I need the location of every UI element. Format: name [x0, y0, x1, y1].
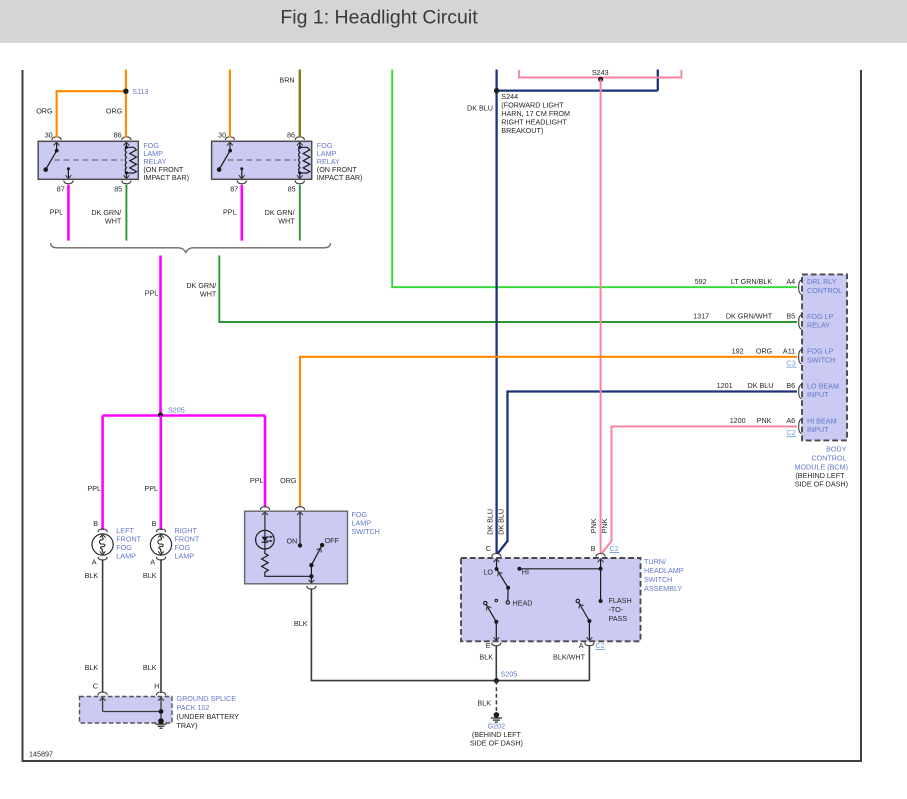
wire PPL to fog lamp switch [264, 416, 267, 508]
svg-text:PPL: PPL [87, 484, 101, 493]
wire BLK from pin E [495, 646, 497, 681]
svg-text:PPL: PPL [50, 208, 64, 217]
ground splice pack 102 box [80, 697, 173, 724]
svg-text:ORG: ORG [106, 106, 123, 115]
dimmer lever [497, 569, 509, 588]
svg-text:C3: C3 [787, 359, 796, 368]
fog lamp switch ORG connector [295, 507, 304, 510]
svg-text:A: A [579, 641, 584, 650]
svg-text:PACK 102: PACK 102 [177, 703, 210, 712]
svg-text:SWITCH: SWITCH [352, 527, 380, 536]
switch pin C connector [492, 554, 501, 557]
svg-text:A11: A11 [783, 346, 795, 355]
LO contact dot [495, 567, 499, 571]
wire ORG drop to relay K1 pin 30 [56, 90, 58, 137]
svg-text:BLK: BLK [85, 571, 99, 580]
svg-text:C2: C2 [596, 641, 605, 650]
relay K1 pin 85 connector [122, 181, 131, 184]
fog lamp switch PPL connector [260, 507, 269, 510]
switch pin E connector [492, 643, 501, 646]
svg-text:SIDE OF DASH): SIDE OF DASH) [470, 739, 523, 748]
relay K2 pin 87 connector [237, 181, 246, 184]
splice pack junction [159, 709, 164, 714]
svg-text:PPL: PPL [145, 289, 159, 298]
BCM pin B6 connector [799, 384, 802, 399]
svg-text:1317: 1317 [693, 312, 709, 321]
wire BLK/WHT from pin A [588, 646, 590, 681]
svg-text:S243: S243 [592, 68, 609, 77]
svg-text:S113: S113 [132, 87, 148, 96]
wire ORG feed to relay K2 pin 30 [229, 70, 231, 138]
wire PPL S205 horizontal [103, 414, 265, 417]
svg-text:DK GRN/WHT: DK GRN/WHT [726, 312, 773, 321]
BCM pin A4 connector [799, 280, 802, 295]
svg-text:BRN: BRN [279, 76, 294, 85]
svg-text:PNK: PNK [589, 518, 598, 533]
relay K1 pin 30 connector [52, 137, 61, 140]
svg-text:A6: A6 [786, 416, 795, 425]
wire ORG branch S113 to relay K1 pin 30 [57, 90, 126, 92]
wire PNK from BCM HI beam input [601, 426, 797, 554]
dimmer switch common from pin C [495, 559, 497, 569]
svg-text:WHT: WHT [278, 217, 295, 226]
svg-text:INPUT: INPUT [807, 390, 829, 399]
svg-text:DK BLU: DK BLU [467, 103, 493, 112]
flash-to-pass contact [576, 599, 579, 602]
HI contact bus [519, 568, 600, 570]
svg-text:B6: B6 [786, 381, 795, 390]
svg-text:BLK: BLK [85, 663, 99, 672]
svg-text:86: 86 [114, 130, 122, 139]
svg-text:C: C [93, 682, 98, 691]
svg-text:BODY: BODY [826, 445, 847, 454]
svg-text:GROUND SPLICE: GROUND SPLICE [177, 694, 237, 703]
fog lamp switch OFF contact [320, 543, 324, 547]
svg-text:OFF: OFF [325, 536, 340, 545]
wire PPL from relay K2 pin 87 [241, 185, 244, 241]
svg-text:PPL: PPL [144, 484, 158, 493]
svg-text:(UNDER BATTERY: (UNDER BATTERY [177, 712, 240, 721]
wire DK GRN/WHT bundle to BCM [219, 256, 797, 323]
svg-text:PNK: PNK [600, 518, 609, 533]
svg-text:CONTROL: CONTROL [807, 286, 842, 295]
svg-text:DK BLU: DK BLU [748, 381, 774, 390]
svg-text:WHT: WHT [200, 290, 217, 299]
relay K1 pin 87 output arrow [67, 167, 70, 170]
svg-text:ON: ON [287, 537, 298, 546]
svg-text:PPL: PPL [223, 208, 237, 217]
svg-text:BLK: BLK [294, 619, 308, 628]
svg-text:SWITCH: SWITCH [644, 575, 672, 584]
svg-text:S205: S205 [501, 670, 518, 679]
turn/headlamp switch assembly box [461, 558, 641, 641]
ground symbol splice pack [155, 718, 166, 728]
svg-text:30: 30 [218, 130, 226, 139]
diagram frame border [23, 70, 862, 761]
BCM pin A6 connector [799, 419, 802, 434]
wire PPL bundle to S205 [159, 256, 162, 416]
left front fog lamp pin A connector [98, 557, 107, 560]
switch pin B connector [596, 554, 605, 557]
right front fog lamp pin A connector [156, 557, 165, 560]
svg-text:C2: C2 [787, 428, 796, 437]
svg-text:TRAY): TRAY) [177, 721, 198, 730]
svg-text:LO: LO [483, 568, 493, 577]
svg-text:DK BLU: DK BLU [485, 509, 494, 535]
wire BLK right fog lamp ground [160, 559, 162, 693]
relay K2 coil [299, 142, 310, 178]
svg-text:86: 86 [287, 130, 295, 139]
svg-text:85: 85 [114, 184, 122, 193]
relay K2 pin 30 arrow [227, 142, 233, 145]
harness bundle brace [51, 243, 331, 252]
svg-text:592: 592 [695, 277, 707, 286]
svg-text:INPUT: INPUT [807, 425, 829, 434]
wire BLK left fog lamp ground [102, 559, 104, 693]
svg-text:BLK: BLK [143, 663, 157, 672]
fog lamp switch PPL arrow [262, 512, 268, 515]
pin B riser [600, 559, 602, 601]
relay K1 pin 86 connector [122, 137, 131, 140]
svg-text:85: 85 [288, 184, 296, 193]
wire BLK fog lamp switch ground [311, 588, 589, 680]
fog lamp relay K1 box [38, 141, 138, 179]
svg-text:BLK: BLK [477, 699, 491, 708]
splice pack internal bus [103, 698, 161, 720]
flash-to-pass output to pin A [588, 621, 590, 640]
fog lamp switch lever [311, 545, 322, 565]
svg-text:HI BEAM: HI BEAM [807, 416, 837, 425]
relay K2 pin 85 connector [295, 181, 304, 184]
svg-text:ORG: ORG [36, 106, 53, 115]
right front fog lamp right front fog lamp [150, 534, 171, 555]
svg-text:CONTROL: CONTROL [811, 454, 846, 463]
fog lamp switch indicator LED [256, 530, 275, 549]
wire DK GRN/WHT from relay K1 pin 85 [125, 185, 127, 241]
dimmer lever to HEAD contact [507, 588, 509, 601]
wire LT GRN/BLK to BCM DRL relay control [392, 70, 797, 288]
svg-text:87: 87 [230, 184, 238, 193]
fog lamp switch resistor [262, 549, 312, 576]
wire PNK main vertical [600, 79, 602, 554]
svg-text:ORG: ORG [756, 346, 773, 355]
splice S244 [494, 88, 499, 93]
svg-text:LT GRN/BLK: LT GRN/BLK [731, 277, 772, 286]
splice S205 [158, 412, 163, 417]
svg-text:TURN/: TURN/ [644, 557, 666, 566]
svg-text:30: 30 [45, 130, 53, 139]
svg-text:A4: A4 [786, 277, 795, 286]
svg-text:E: E [486, 641, 491, 650]
svg-text:87: 87 [57, 184, 65, 193]
headlamp switch output to pin E [495, 622, 497, 641]
fog lamp relay K2 box [212, 141, 312, 179]
svg-text:LAMP: LAMP [116, 551, 136, 560]
svg-text:B5: B5 [786, 312, 795, 321]
splice pack pin C connector [98, 692, 107, 695]
svg-text:ASSEMBLY: ASSEMBLY [644, 584, 682, 593]
left front fog lamp left front fog lamp [92, 534, 113, 555]
svg-text:PASS: PASS [609, 614, 628, 623]
wire BLK dashed to G202 [495, 681, 497, 712]
svg-text:1201: 1201 [717, 381, 733, 390]
svg-text:C2: C2 [610, 544, 619, 553]
fog lamp switch output connector [307, 586, 316, 589]
svg-text:HEADLAMP: HEADLAMP [644, 566, 684, 575]
relay K1 coil [125, 142, 136, 178]
wire PNK bracket at S243 [519, 70, 682, 78]
svg-text:145897: 145897 [29, 750, 53, 759]
relay K2 switch [219, 142, 230, 170]
svg-text:BREAKOUT): BREAKOUT) [501, 126, 543, 135]
relay K1 pin 87 connector [64, 181, 73, 184]
wire DK BLU horizontal at S244 [497, 89, 658, 91]
wire DK GRN/WHT from relay K2 pin 85 [299, 185, 301, 241]
BCM pin B5 connector [799, 315, 802, 330]
svg-text:SIDE OF DASH): SIDE OF DASH) [795, 480, 848, 489]
relay K2 dashed separator [228, 159, 297, 161]
fog lamp switch ON contact [299, 513, 301, 545]
relay K2 pin 87 output arrow [240, 167, 243, 170]
fog lamp switch box [245, 511, 348, 584]
BCM pin A11 connector [799, 350, 802, 365]
svg-text:1200: 1200 [730, 416, 746, 425]
wire DK BLU from BCM LO beam input [497, 392, 797, 555]
svg-text:DK BLU: DK BLU [496, 509, 505, 535]
relay K1 dashed separator [54, 159, 123, 161]
wire DK BLU main vertical [495, 70, 497, 555]
left front fog lamp pin B connector [98, 529, 107, 532]
svg-text:BLK/WHT: BLK/WHT [553, 653, 586, 662]
wire ORG fog lamp switch to BCM [300, 357, 797, 508]
relay K1 pin 30 arrow [54, 142, 60, 145]
svg-text:FOG LP: FOG LP [807, 312, 834, 321]
svg-text:S205: S205 [168, 406, 185, 415]
wire PPL from relay K1 pin 87 [67, 185, 70, 241]
wire DK BLU right riser [657, 70, 659, 91]
svg-text:BLK: BLK [143, 571, 157, 580]
svg-text:Fig 1: Headlight Circuit: Fig 1: Headlight Circuit [280, 7, 478, 29]
relay K1 switch [46, 142, 57, 170]
svg-text:FOG LP: FOG LP [807, 347, 834, 356]
fog lamp switch output [310, 565, 312, 583]
svg-text:RELAY: RELAY [807, 321, 830, 330]
svg-text:FLASH: FLASH [609, 596, 632, 605]
ground G202 [491, 712, 502, 722]
wire BRN feed to relay K2 pin 86 [299, 70, 301, 138]
flash-to-pass lever [579, 603, 590, 622]
svg-text:SWITCH: SWITCH [807, 355, 835, 364]
headlamp switch contact [484, 601, 487, 604]
relay K2 pin 30 connector [225, 137, 234, 140]
splice S243 [598, 77, 603, 82]
svg-text:B: B [591, 544, 596, 553]
svg-text:LO BEAM: LO BEAM [807, 382, 839, 391]
svg-text:ORG: ORG [280, 476, 297, 485]
svg-text:IMPACT BAR): IMPACT BAR) [143, 173, 189, 182]
splice S205 ground side [494, 678, 499, 683]
svg-text:H: H [154, 682, 159, 691]
wire PPL to right fog lamp [160, 416, 163, 531]
svg-text:WHT: WHT [105, 217, 122, 226]
splice S113 [123, 89, 128, 94]
svg-text:A: A [150, 558, 155, 567]
svg-text:C: C [486, 544, 491, 553]
headlamp switch lever [486, 605, 496, 622]
body control module BCM box [802, 274, 847, 440]
relay K2 pin 86 connector [295, 137, 304, 140]
title bar [0, 0, 907, 43]
fog lamp switch pivot [309, 563, 313, 567]
svg-text:-TO-: -TO- [609, 605, 624, 614]
svg-text:DRL RLY: DRL RLY [807, 277, 837, 286]
svg-text:PNK: PNK [757, 416, 772, 425]
right front fog lamp pin B connector [156, 529, 165, 532]
svg-text:B: B [152, 519, 157, 528]
svg-text:A: A [92, 558, 97, 567]
wire ORG feed to relay K1 pin 86 [125, 70, 127, 138]
switch pin A connector [585, 643, 594, 646]
svg-text:LAMP: LAMP [175, 551, 195, 560]
svg-text:BLK: BLK [479, 653, 493, 662]
svg-text:PPL: PPL [250, 476, 264, 485]
svg-text:B: B [93, 519, 98, 528]
svg-text:HEAD: HEAD [513, 599, 533, 608]
wire PPL to left fog lamp [101, 416, 104, 531]
svg-text:192: 192 [732, 346, 744, 355]
svg-text:IMPACT BAR): IMPACT BAR) [317, 173, 363, 182]
splice pack pin H connector [156, 692, 165, 695]
